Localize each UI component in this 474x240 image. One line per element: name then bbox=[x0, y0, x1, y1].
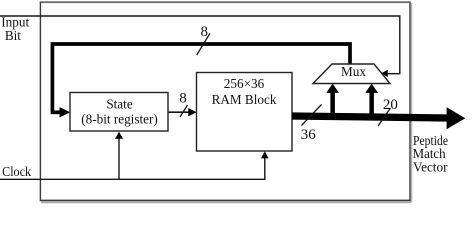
svg-text:Clock: Clock bbox=[2, 164, 31, 179]
svg-text:256×36: 256×36 bbox=[224, 76, 265, 91]
svg-text:Vector: Vector bbox=[413, 161, 448, 176]
svg-text:Input: Input bbox=[1, 14, 29, 29]
svg-text:36: 36 bbox=[301, 127, 317, 143]
svg-text:8: 8 bbox=[179, 91, 187, 107]
svg-text:Mux: Mux bbox=[341, 64, 366, 79]
svg-text:(8-bit register): (8-bit register) bbox=[81, 111, 158, 126]
svg-text:Bit: Bit bbox=[5, 28, 21, 43]
svg-text:State: State bbox=[106, 97, 133, 112]
svg-text:RAM Block: RAM Block bbox=[212, 92, 277, 107]
svg-text:20: 20 bbox=[383, 97, 398, 113]
